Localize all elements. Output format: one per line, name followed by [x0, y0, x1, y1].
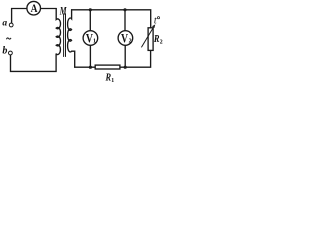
thermistor arrow through R2	[142, 27, 154, 47]
transformer primary winding	[56, 9, 60, 55]
ammeter A	[27, 1, 41, 15]
junction node top V1	[89, 8, 92, 11]
junction node bottom V1	[89, 66, 92, 69]
svg-text:R: R	[153, 34, 159, 45]
degree circle of t	[157, 17, 159, 19]
transformer core line 2	[65, 14, 67, 57]
wire V2 bottom stub	[124, 45, 126, 67]
svg-text:t: t	[154, 15, 157, 26]
svg-text:A: A	[31, 3, 38, 15]
thermistor arrowhead	[152, 24, 155, 28]
junction node top V2	[123, 8, 126, 11]
terminal a	[9, 23, 13, 27]
svg-text:M: M	[59, 5, 67, 18]
terminal b	[9, 51, 13, 55]
svg-text:2: 2	[129, 39, 132, 45]
wire lead from rail down to terminal a	[11, 9, 13, 24]
junction node bottom V2	[124, 66, 127, 69]
svg-text:a: a	[2, 19, 7, 29]
svg-text:V: V	[86, 32, 93, 45]
transformer core line 1	[63, 14, 65, 57]
svg-text:1: 1	[111, 78, 114, 84]
wire top-right rail, down to R2 top	[72, 10, 151, 28]
AC source tilde	[6, 38, 11, 39]
svg-text:V: V	[121, 32, 128, 45]
svg-text:2: 2	[160, 40, 163, 46]
svg-text:R: R	[105, 73, 111, 84]
wire top-left rail	[12, 8, 57, 10]
svg-text:1: 1	[93, 39, 96, 45]
wire b lead, bottom-left rail, up to primary	[11, 54, 57, 71]
transformer secondary winding	[68, 10, 75, 67]
wire V1 top stub	[89, 10, 91, 31]
wire middle rail left of R1	[75, 66, 96, 68]
wire V2 top stub	[124, 10, 126, 31]
wire middle rail right of R1, up to R2 bottom	[120, 50, 151, 67]
voltmeter V2	[118, 31, 133, 46]
resistor R2	[148, 28, 153, 51]
svg-text:b: b	[2, 46, 7, 57]
wire V1 bottom stub	[89, 45, 91, 67]
voltmeter V1	[83, 31, 98, 46]
resistor R1	[95, 65, 120, 69]
